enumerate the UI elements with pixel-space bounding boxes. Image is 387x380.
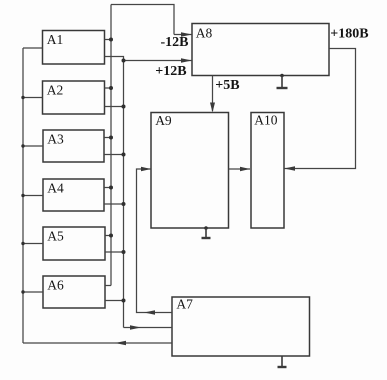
ground symbol below A7 xyxy=(278,356,287,367)
block A3 xyxy=(43,130,104,162)
junction dot A9 ground stem xyxy=(204,226,208,230)
wire A4 upper output xyxy=(104,187,113,189)
wire A3 left input xyxy=(23,145,43,147)
block A8 xyxy=(192,24,329,76)
label A3 xyxy=(47,132,64,147)
label A7 xyxy=(176,297,193,312)
junction dot A5 lower at bus2 xyxy=(122,250,126,254)
svg-text:+5В: +5В xyxy=(215,78,239,93)
wire A1 lower output with jog xyxy=(105,57,124,61)
arrowhead -12V into A8 xyxy=(181,32,192,36)
svg-text:A5: A5 xyxy=(47,229,64,244)
label A2 xyxy=(47,83,64,98)
arrowhead A7 to A9 direction xyxy=(144,310,155,314)
junction dot A4 left tap xyxy=(21,194,24,197)
wire A5 upper output xyxy=(105,235,113,237)
svg-text:+180В: +180В xyxy=(330,27,368,42)
svg-text:A6: A6 xyxy=(47,278,64,293)
junction dot A5 left tap xyxy=(21,242,24,245)
wire bus2 into A7 xyxy=(124,327,173,329)
block A6 xyxy=(43,276,105,308)
block A1 xyxy=(43,31,105,65)
wire left input bus xyxy=(22,48,24,343)
svg-text:A9: A9 xyxy=(155,113,172,128)
svg-text:A7: A7 xyxy=(176,297,193,312)
arrowhead A10 input from A9 xyxy=(240,167,250,171)
wire A4 left input xyxy=(23,195,43,197)
wire bus1 vertical xyxy=(110,5,112,286)
junction dot A3 lower at bus2 xyxy=(122,153,126,157)
wire A3 upper output xyxy=(104,137,113,139)
label +180V xyxy=(330,27,368,42)
arrowhead A7 to left bus direction xyxy=(115,341,126,345)
wire +5V from A8 to A9 xyxy=(212,76,214,112)
junction dot A6 left tap xyxy=(21,290,24,293)
wire A1 left input xyxy=(23,47,43,49)
wire A4 lower output xyxy=(104,203,124,205)
wire A9 to A10 xyxy=(229,168,251,170)
arrowhead +5V into A9 xyxy=(210,103,215,113)
wire A6 left input xyxy=(23,291,43,293)
label +5V xyxy=(215,78,239,93)
svg-text:A10: A10 xyxy=(254,112,277,127)
junction dot A2 lower at bus2 xyxy=(122,105,126,109)
label A9 xyxy=(155,113,172,128)
junction dot A2 left tap xyxy=(21,96,24,99)
wire A5 left input xyxy=(23,243,43,245)
junction dot A3 left tap xyxy=(21,144,24,147)
block A10 xyxy=(251,113,284,229)
wire bus2 vertical xyxy=(123,61,125,328)
block A9 xyxy=(151,113,229,229)
wire bus1 top run to -12V corner xyxy=(111,5,174,35)
block A4 xyxy=(43,179,104,211)
svg-text:+12В: +12В xyxy=(155,64,186,79)
wire +12V into A8 xyxy=(124,60,193,62)
junction dot A4 upper at bus1 xyxy=(109,186,113,190)
svg-text:A2: A2 xyxy=(47,83,64,98)
arrowhead A9 input from A7 xyxy=(141,167,151,171)
arrowhead bus2 into A7 xyxy=(130,325,141,329)
label A5 xyxy=(47,229,64,244)
wire A6 upper output xyxy=(105,285,111,287)
wire A7 to left bus (bottom return) xyxy=(23,342,172,344)
block A7 xyxy=(172,297,310,356)
junction dot A3 upper at bus1 xyxy=(109,136,113,140)
wire A2 left input xyxy=(23,97,43,99)
label A4 xyxy=(47,181,64,196)
block A5 xyxy=(43,227,105,260)
wire A3 lower output xyxy=(104,154,124,156)
wire A5 lower output xyxy=(105,251,124,253)
wire A6 lower output xyxy=(105,300,124,302)
label A1 xyxy=(47,32,64,47)
block A2 xyxy=(43,81,105,114)
junction dot A4 lower at bus2 xyxy=(122,202,126,206)
wire A1 upper output xyxy=(105,39,113,41)
ground symbol below A8 xyxy=(277,76,288,89)
arrowhead A10 input from +180V xyxy=(284,166,295,170)
wire -12V into A8 xyxy=(174,34,192,36)
wire +180V from A8 to A10 xyxy=(284,49,356,169)
wire A7 to A9 feedback xyxy=(137,169,173,313)
ground symbol below A9 xyxy=(202,228,211,238)
svg-text:A8: A8 xyxy=(196,26,213,41)
arrowhead +12V into A8 xyxy=(181,58,192,62)
junction dot A2 upper at bus1 xyxy=(109,86,113,90)
junction dot A6 lower at bus2 xyxy=(122,299,126,303)
junction dot +12V at bus2 xyxy=(122,59,126,63)
wire A2 upper output xyxy=(105,87,113,89)
label A10 xyxy=(254,112,277,127)
svg-text:A3: A3 xyxy=(47,132,64,147)
junction dot A1 upper at bus1 xyxy=(109,38,113,42)
svg-text:A4: A4 xyxy=(47,181,64,196)
wire A2 lower output xyxy=(105,106,124,108)
label A6 xyxy=(47,278,64,293)
svg-text:A1: A1 xyxy=(47,32,64,47)
junction dot A8 ground stem xyxy=(280,74,284,78)
label A8 xyxy=(196,26,213,41)
label -12V xyxy=(161,35,189,50)
label +12V xyxy=(155,64,186,79)
svg-text:-12В: -12В xyxy=(161,35,189,50)
junction dot A5 upper at bus1 xyxy=(109,234,113,238)
